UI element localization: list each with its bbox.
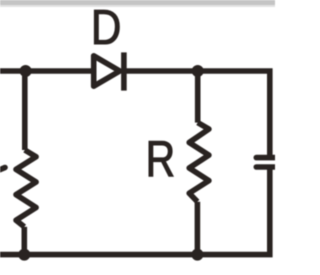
resistor left (cropped branch) xyxy=(16,150,36,227)
resistor R xyxy=(189,123,209,202)
top grey band xyxy=(0,0,275,5)
capacitor top plate xyxy=(256,155,278,161)
wire left branch bottom lead xyxy=(21,227,27,255)
diode D triangle xyxy=(94,56,120,86)
resistor fragment at left edge (cropped) xyxy=(0,168,5,171)
wire top-right segment and right branch down to capacitor xyxy=(124,71,270,155)
label D xyxy=(94,10,119,44)
junction dot top-middle xyxy=(192,65,204,77)
wire left branch top lead xyxy=(22,71,28,150)
diode D cathode bar xyxy=(121,52,127,90)
wire middle branch top lead xyxy=(195,71,201,123)
wire right branch below capacitor continuing into bottom wire xyxy=(0,169,270,254)
wire middle branch bottom lead xyxy=(195,202,201,255)
junction dot top-left xyxy=(20,65,32,77)
label R xyxy=(149,141,173,176)
junction dot bottom-left xyxy=(18,249,30,261)
capacitor bottom plate xyxy=(256,164,278,170)
wire top-left segment xyxy=(0,68,94,74)
junction dot bottom-middle xyxy=(191,249,203,261)
